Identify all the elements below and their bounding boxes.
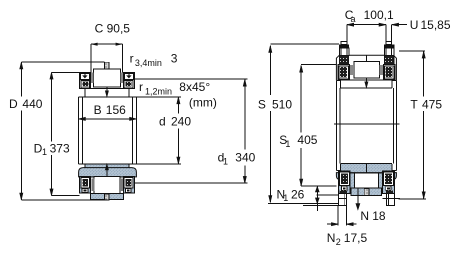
svg-text:a: a bbox=[351, 14, 356, 24]
svg-text:(mm): (mm) bbox=[189, 95, 217, 109]
bottom band underline (left view) bbox=[91, 176, 124, 178]
svg-text:D: D bbox=[9, 97, 18, 111]
bottom grey strip right (left view) bbox=[120, 179, 123, 192]
top left roller bracket (right view) bbox=[338, 65, 350, 80]
svg-text:240: 240 bbox=[171, 114, 191, 128]
bottom left bracket column (left view) bbox=[79, 176, 90, 192]
centerline with d top arrow bbox=[105, 87, 108, 97]
svg-text:S: S bbox=[258, 98, 266, 112]
housing body bbox=[336, 80, 396, 170]
svg-text:3,4min: 3,4min bbox=[135, 58, 162, 68]
top left roller (crosshatched) bbox=[81, 80, 90, 88]
top nub (hatched) bbox=[104, 62, 109, 69]
bottom pin hatched bases bbox=[340, 190, 347, 193]
svg-text:156: 156 bbox=[106, 103, 126, 117]
dimension U 15,85 bbox=[392, 18, 451, 44]
bottom rollers (right view) bbox=[339, 172, 349, 185]
bottom right cage dot (left view) bbox=[125, 188, 131, 192]
bottom ring split centerline bbox=[365, 164, 367, 173]
svg-text:18: 18 bbox=[372, 209, 386, 223]
svg-text:N: N bbox=[327, 231, 336, 245]
dimension B 156 bbox=[79, 103, 137, 120]
dimension S1 405 bbox=[279, 65, 336, 187]
top grey strips (right view) bbox=[350, 65, 355, 75]
svg-text:r: r bbox=[130, 51, 134, 65]
svg-text:B: B bbox=[94, 103, 102, 117]
bottom tongue (left view) bbox=[91, 194, 124, 200]
top center block (right view) bbox=[354, 62, 380, 79]
dimension N2 17,5 bbox=[327, 206, 368, 247]
label r 3,4min 3 bbox=[130, 51, 178, 68]
bottom cage dots (right view) bbox=[342, 186, 347, 190]
bottom nub (left view, hatched) bbox=[104, 194, 109, 200]
svg-text:17,5: 17,5 bbox=[344, 231, 368, 245]
svg-text:8x45°: 8x45° bbox=[179, 80, 210, 94]
svg-text:C: C bbox=[95, 21, 104, 35]
bottom colored ring neck band bbox=[336, 164, 396, 173]
svg-text:405: 405 bbox=[297, 133, 317, 147]
svg-text:26: 26 bbox=[291, 188, 305, 202]
bottom left pin bbox=[338, 194, 346, 206]
bottom right bracket column (left view) bbox=[123, 176, 134, 192]
top right roller (crosshatched) bbox=[124, 80, 133, 88]
centerline arrow (right view top) bbox=[365, 78, 368, 88]
dimension C 90,5 bbox=[91, 44, 123, 72]
top left roller bracket bbox=[79, 73, 90, 89]
bottom right roller (left view) bbox=[124, 178, 133, 188]
bottom left roller (left view) bbox=[81, 178, 90, 188]
top inner-ring center block bbox=[94, 69, 121, 87]
svg-text:U: U bbox=[410, 18, 419, 32]
dimension S 510 bbox=[258, 44, 339, 206]
bottom colored neck band (left view) bbox=[85, 164, 129, 168]
svg-text:1: 1 bbox=[283, 193, 288, 203]
svg-text:2: 2 bbox=[336, 237, 341, 247]
dimension T 475 bbox=[399, 51, 443, 199]
centerline with d bottom arrow (left view) bbox=[105, 164, 108, 177]
bottom side strips (right view) bbox=[350, 173, 354, 188]
dimension d1 340 bbox=[135, 79, 256, 183]
svg-text:1: 1 bbox=[223, 157, 228, 167]
dimension N1 26 bbox=[277, 187, 339, 212]
bottom center block (right view) bbox=[354, 173, 378, 188]
cage arrow marker left bbox=[82, 74, 87, 79]
centerline stub above center block (right view) bbox=[365, 55, 367, 61]
bottom outer ring shell with round shoulders (left view) bbox=[79, 168, 137, 177]
svg-text:1,2min: 1,2min bbox=[145, 87, 172, 97]
dimension d 240 bbox=[159, 97, 191, 164]
top grey strip left bbox=[91, 73, 94, 83]
svg-text:d: d bbox=[159, 114, 166, 128]
svg-text:15,85: 15,85 bbox=[421, 18, 451, 32]
bottom right pin bbox=[383, 194, 401, 206]
svg-text:340: 340 bbox=[235, 151, 255, 165]
svg-text:440: 440 bbox=[22, 97, 42, 111]
housing mid seam bbox=[334, 123, 400, 125]
top right pin bbox=[384, 42, 394, 65]
svg-text:475: 475 bbox=[422, 98, 442, 112]
label r 1,2min 8x45deg bbox=[139, 80, 210, 97]
top right roller bracket (right view) bbox=[383, 65, 395, 80]
svg-text:3: 3 bbox=[171, 52, 178, 66]
top right roller bracket bbox=[123, 73, 134, 89]
svg-text:N: N bbox=[360, 209, 369, 223]
svg-text:90,5: 90,5 bbox=[107, 21, 131, 35]
bottom grey strip left (left view) bbox=[92, 179, 95, 192]
svg-text:373: 373 bbox=[50, 141, 70, 155]
svg-text:100,1: 100,1 bbox=[364, 8, 394, 22]
top neck step bbox=[79, 89, 134, 97]
top grey strip right bbox=[120, 73, 123, 83]
bottom colored ring shell bbox=[336, 171, 396, 193]
svg-text:1: 1 bbox=[42, 147, 47, 157]
top outer ring shell bbox=[336, 55, 396, 80]
dimension Ca 100,1 bbox=[345, 8, 394, 44]
bottom inner-ring center block (left view) bbox=[94, 177, 120, 194]
leader N 18 bbox=[356, 189, 386, 224]
svg-text:510: 510 bbox=[272, 98, 292, 112]
svg-text:1: 1 bbox=[285, 139, 290, 149]
bottom nub (right view) bbox=[364, 189, 369, 196]
svg-text:T: T bbox=[410, 98, 418, 112]
dimension D1 373 bbox=[33, 72, 80, 195]
cage arrow marker right bbox=[126, 74, 131, 79]
bottom left cage dot (left view) bbox=[82, 188, 88, 192]
top left pin bbox=[339, 42, 349, 65]
dimension D 440 bbox=[9, 62, 104, 200]
shoulder line under right-view top assembly bbox=[338, 79, 395, 81]
sleeve body (B 156 rectangle) bbox=[79, 97, 181, 164]
svg-text:r: r bbox=[139, 80, 143, 94]
bottom tongue (right view) bbox=[351, 188, 382, 196]
